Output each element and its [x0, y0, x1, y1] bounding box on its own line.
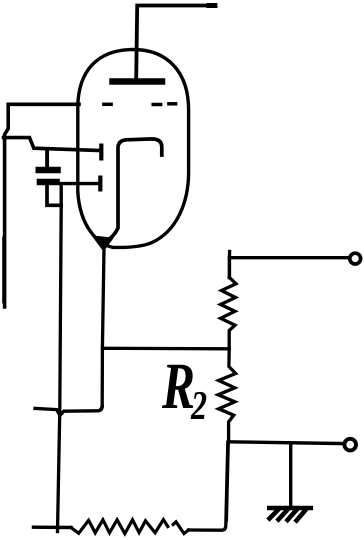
wire top output lead	[229, 252, 349, 258]
grid dashed line	[104, 102, 176, 106]
plate (anode) bar	[113, 78, 163, 85]
wire cap bottom stub	[47, 185, 61, 205]
wire right rail down	[226, 442, 228, 520]
capacitor C plate top	[39, 167, 58, 174]
wire plate top lead	[136, 6, 215, 80]
ground bar	[269, 506, 311, 511]
cathode	[104, 139, 162, 244]
wire bottom rail left stub	[34, 525, 72, 529]
terminal circle bottom	[344, 439, 356, 451]
terminal circle top	[350, 253, 361, 264]
cathode junction triangle	[94, 237, 113, 251]
wire left input thick segment	[2, 238, 4, 302]
node grid-pin 1 bar	[99, 146, 103, 159]
resistor bottom zigzag	[71, 520, 168, 534]
ground hatch strokes	[270, 510, 306, 521]
wire long vertical from grid-2 node to bottom	[58, 205, 62, 531]
wire R lead upper	[228, 258, 232, 278]
wire cathode down lead	[102, 249, 104, 406]
wire horizontal with dip junction	[35, 406, 102, 416]
svg-text:2: 2	[190, 382, 207, 428]
resistor R2 lower zigzag	[218, 349, 236, 442]
wire ground stub	[289, 443, 292, 507]
capacitor C plate bottom	[40, 179, 57, 186]
wire top lead end blob	[209, 3, 215, 8]
resistor R upper zigzag	[221, 278, 237, 349]
wire grid-1 lead (left, with step)	[4, 138, 100, 151]
wire left input top	[5, 104, 79, 307]
wire cap top stub	[45, 152, 49, 168]
resistor bottom zigzag tail	[173, 522, 188, 534]
node grid-pin 2 bar	[98, 178, 102, 190]
tube V1 envelope	[78, 50, 189, 248]
wire bottom rail right	[189, 443, 228, 530]
label R2	[161, 350, 207, 428]
wire bottom output lead	[229, 442, 345, 444]
svg-text:R: R	[161, 350, 195, 423]
wire cathode to divider mid tap	[102, 347, 229, 351]
wire grid-2 lead	[61, 184, 98, 207]
